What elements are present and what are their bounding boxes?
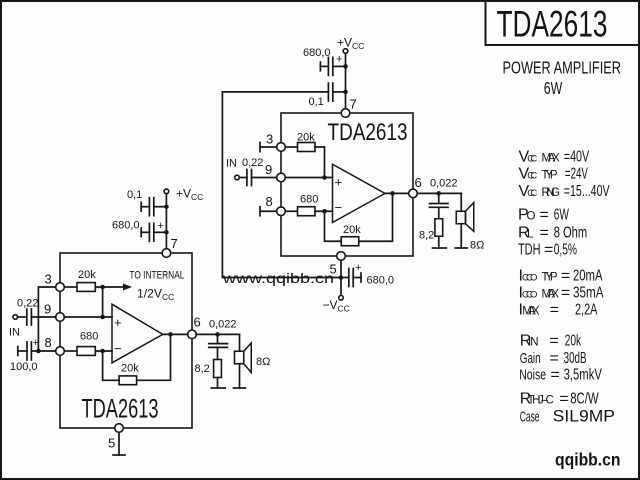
wire op-amp output to pin 6 (lower) xyxy=(163,333,188,335)
speaker 8 ohm (upper) xyxy=(455,193,474,248)
svg-text:−VCC: −VCC xyxy=(323,298,350,314)
svg-text:RIN=20k: RIN=20k xyxy=(520,332,582,349)
U1 pin 7 xyxy=(162,249,171,258)
svg-text:POWER AMPLIFIER: POWER AMPLIFIER xyxy=(503,58,622,78)
resistor 20k (lower, pin 3 to +input) xyxy=(64,283,102,317)
svg-text:www.qqibb.cn: www.qqibb.cn xyxy=(222,271,334,286)
junction pin 3 bias / 100,0 xyxy=(36,349,41,354)
svg-text:6W: 6W xyxy=(544,78,563,98)
resistor 8,2 (lower zobel) xyxy=(211,360,225,389)
junction -input (lower) xyxy=(100,349,105,354)
-Vcc terminal xyxy=(339,296,344,301)
capacitor 0,1 (upper supply) xyxy=(222,83,345,101)
svg-text:IN: IN xyxy=(9,327,20,339)
arrow TO INTERNAL 1/2Vcc xyxy=(103,284,132,291)
svg-text:RL=8 Ohm: RL=8 Ohm xyxy=(518,225,587,242)
wire pin 5 to -Vcc xyxy=(340,260,342,295)
resistor 20k (upper feedback) xyxy=(325,193,393,245)
svg-text:20k: 20k xyxy=(297,132,315,144)
svg-text:3: 3 xyxy=(266,132,273,147)
U1 pin 3 xyxy=(56,283,65,292)
svg-text:0,1: 0,1 xyxy=(127,189,142,201)
svg-text:3: 3 xyxy=(45,272,52,287)
svg-text:9: 9 xyxy=(44,302,51,317)
U1 pin 9 xyxy=(56,313,65,322)
svg-text:+: + xyxy=(114,315,122,330)
svg-text:8Ω: 8Ω xyxy=(470,240,484,252)
svg-text:0,022: 0,022 xyxy=(209,319,237,331)
svg-text:0,22: 0,22 xyxy=(17,298,38,310)
svg-text:TO INTERNAL: TO INTERNAL xyxy=(129,270,184,282)
svg-text:8,2: 8,2 xyxy=(195,363,210,375)
svg-text:9: 9 xyxy=(265,162,272,177)
capacitor 680,0 (lower supply electrolytic) xyxy=(141,220,166,241)
svg-text:VCCMAX=40V: VCCMAX=40V xyxy=(519,148,590,165)
svg-text:+: + xyxy=(33,337,39,349)
wire pin 9 to +input (lower) xyxy=(64,316,112,318)
U2 pin 8 xyxy=(277,207,286,216)
op-amp U1 triangle (lower) xyxy=(112,304,163,363)
svg-text:VCCTYP=24V: VCCTYP=24V xyxy=(519,166,589,183)
wire +Vcc to pin 7 (lower) xyxy=(165,194,167,249)
capacitor 100,0 (lower electrolytic) xyxy=(18,337,56,360)
svg-text:IMAX=2,2A: IMAX=2,2A xyxy=(519,302,598,319)
capacitor 0,022 (lower zobel) xyxy=(209,334,228,359)
svg-text:680: 680 xyxy=(300,194,318,206)
svg-text:680,0: 680,0 xyxy=(303,47,331,59)
U2 pin 7 xyxy=(341,109,350,118)
svg-text:6: 6 xyxy=(194,315,201,330)
junction output (lower) xyxy=(168,332,173,337)
resistor 680 (upper, pin 8 series) xyxy=(285,207,332,216)
wire 0,1 cap down to -Vcc rail xyxy=(222,92,338,278)
svg-text:7: 7 xyxy=(171,236,178,251)
+Vcc terminal (upper circuit) xyxy=(343,49,348,54)
svg-text:−: − xyxy=(335,200,343,215)
svg-text:+VCC: +VCC xyxy=(176,187,203,203)
junction on Vcc wire at 0,1 cap xyxy=(343,90,348,95)
svg-text:680: 680 xyxy=(80,331,98,343)
svg-text:5: 5 xyxy=(108,436,115,451)
svg-text:RTHJ–C=8C/W: RTHJ–C=8C/W xyxy=(520,390,599,407)
svg-text:6: 6 xyxy=(415,175,422,190)
junction -Vcc rail xyxy=(339,275,344,280)
svg-text:0,1: 0,1 xyxy=(309,96,324,108)
U1 pin 6 xyxy=(188,330,197,339)
junction output (upper) xyxy=(390,191,395,196)
resistor 8,2 (upper zobel) xyxy=(433,219,447,248)
svg-text:7: 7 xyxy=(350,97,357,112)
svg-text:VCCRNG=15...40V: VCCRNG=15...40V xyxy=(519,183,610,200)
svg-text:8Ω: 8Ω xyxy=(256,356,270,368)
resistor 680 (lower, pin 8 series) xyxy=(64,347,112,356)
wire pin 6 to output node (lower) xyxy=(196,333,239,335)
wire pin 5 stub xyxy=(113,432,125,455)
svg-text:680,0: 680,0 xyxy=(112,220,140,232)
svg-text:+VCC: +VCC xyxy=(337,36,364,52)
svg-text:ICCOTYP=20mA: ICCOTYP=20mA xyxy=(519,267,603,284)
junction 20k to internal arrow xyxy=(100,285,105,290)
svg-text:PO=6W: PO=6W xyxy=(518,206,569,223)
capacitor 0,1 (lower supply) xyxy=(141,198,166,216)
svg-text:20k: 20k xyxy=(343,224,361,236)
junction +input (lower) xyxy=(100,315,105,320)
U1 pin 8 xyxy=(56,347,65,356)
wire op-amp output to pin 6 xyxy=(385,192,409,194)
svg-text:20k: 20k xyxy=(78,269,96,281)
wire +Vcc to pin 7 xyxy=(345,53,347,108)
svg-text:CaseSIL9MP: CaseSIL9MP xyxy=(520,406,615,425)
svg-text:+: + xyxy=(355,262,361,274)
IC U2 TDA2613 body (upper circuit) xyxy=(281,113,413,256)
capacitor 680,0 (upper supply electrolytic) xyxy=(320,54,345,76)
svg-text:8,2: 8,2 xyxy=(419,230,434,242)
+Vcc terminal (lower circuit) xyxy=(164,189,169,194)
svg-text:20k: 20k xyxy=(121,363,139,375)
pin 3 stub wire xyxy=(260,143,277,152)
wire pin 9 to +input xyxy=(285,177,332,179)
svg-text:5: 5 xyxy=(330,262,337,277)
wire pin 6 to output node (upper) xyxy=(417,192,461,194)
svg-text:8: 8 xyxy=(266,194,273,209)
U1 pin 5 xyxy=(115,424,124,433)
svg-text:Noise=3,5mkV: Noise=3,5mkV xyxy=(519,367,602,384)
svg-text:0,022: 0,022 xyxy=(430,178,458,190)
speaker 8 ohm (lower) xyxy=(234,334,252,388)
U2 pin 9 xyxy=(277,173,286,182)
svg-text:ICCOMAX=35mA: ICCOMAX=35mA xyxy=(519,285,604,302)
svg-text:qqibb.cn: qqibb.cn xyxy=(555,449,621,469)
svg-text:100,0: 100,0 xyxy=(10,361,38,373)
junction at 680,0 cap (lower) xyxy=(164,230,169,235)
svg-text:TDA2613: TDA2613 xyxy=(82,394,159,424)
capacitor 680,0 (pin 5 electrolytic) xyxy=(341,262,361,287)
junction -input (upper) xyxy=(322,209,327,214)
junction +input (upper) xyxy=(322,175,327,180)
svg-text:IN: IN xyxy=(226,158,237,170)
capacitor 0,022 (upper zobel) xyxy=(430,193,449,218)
op-amp U2 triangle (upper) xyxy=(333,164,386,222)
IN terminal (lower circuit) xyxy=(13,315,18,320)
capacitor 0,22 (upper input) xyxy=(239,170,276,186)
U2 pin 3 xyxy=(277,143,286,152)
pin 8 stub wire xyxy=(260,207,277,216)
svg-text:Gain=30dB: Gain=30dB xyxy=(520,350,587,367)
wire pin 3 to 100,0 node xyxy=(38,287,55,351)
svg-text:+: + xyxy=(336,54,342,66)
title box xyxy=(486,1,640,45)
svg-text:+: + xyxy=(335,175,343,190)
junction on Vcc wire at 680,0 cap xyxy=(343,64,348,69)
svg-text:−: − xyxy=(114,341,122,356)
resistor 20k (lower feedback) xyxy=(103,334,171,384)
svg-text:0,22: 0,22 xyxy=(242,157,263,169)
svg-text:TDH=0,5%: TDH=0,5% xyxy=(518,241,577,258)
junction output network (lower) xyxy=(215,332,220,337)
IN terminal (upper circuit) xyxy=(235,175,240,180)
resistor 20k (upper, pin 3 to +input) xyxy=(285,143,324,178)
svg-text:680,0: 680,0 xyxy=(367,275,395,287)
IC U1 TDA2613 body (lower circuit) xyxy=(60,253,192,428)
svg-text:+: + xyxy=(158,220,164,232)
U2 pin 5 xyxy=(337,252,346,261)
U2 pin 6 xyxy=(409,189,418,198)
capacitor 0,22 (lower input) xyxy=(18,309,56,325)
junction output network (upper) xyxy=(436,191,441,196)
junction at 0,1 cap (lower) xyxy=(164,204,169,209)
svg-text:TDA2613: TDA2613 xyxy=(497,4,608,45)
svg-text:TDA2613: TDA2613 xyxy=(328,119,408,146)
svg-text:8: 8 xyxy=(45,335,52,350)
